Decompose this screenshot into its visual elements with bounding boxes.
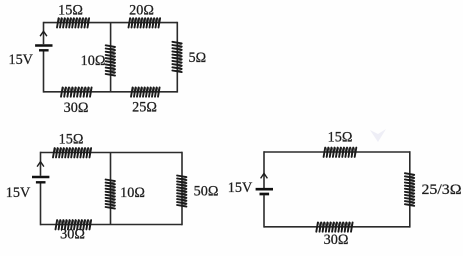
wire: circuit3 left branch upper segment bbox=[263, 151, 265, 188]
wire: circuit1 top rail bbox=[44, 22, 178, 24]
resistor 30&#937; (circuit1 bottom-left) bbox=[61, 87, 92, 96]
svg-text:25Ω: 25Ω bbox=[132, 100, 157, 116]
svg-text:15Ω: 15Ω bbox=[59, 132, 84, 148]
resistor 30&#937; (circuit2 bottom) bbox=[56, 220, 92, 229]
resistor 15&#937; (circuit2 top) bbox=[53, 148, 91, 157]
resistor 50&#937; (circuit2 right branch) bbox=[177, 176, 186, 207]
svg-text:30Ω: 30Ω bbox=[60, 227, 85, 243]
current direction arrow (circuit3) bbox=[261, 173, 268, 178]
resistor 10&#937; (circuit2 middle branch) bbox=[106, 180, 115, 209]
svg-text:15V: 15V bbox=[228, 180, 253, 196]
svg-text:25/3Ω: 25/3Ω bbox=[422, 182, 462, 198]
svg-text:15Ω: 15Ω bbox=[328, 130, 353, 146]
svg-text:5Ω: 5Ω bbox=[188, 50, 206, 66]
battery V3 15V (circuit3) bbox=[256, 188, 273, 191]
current direction arrow (circuit1) bbox=[40, 31, 47, 36]
wire: circuit1 right vertical branch bbox=[176, 22, 178, 93]
svg-text:15V: 15V bbox=[6, 185, 31, 201]
resistor 25&#937; (circuit1 bottom-right) bbox=[131, 87, 160, 96]
faint scan watermark mark bbox=[370, 129, 386, 142]
wire: circuit2 right vertical branch bbox=[181, 152, 183, 226]
wire: circuit3 left branch lower segment bbox=[263, 195, 265, 227]
svg-text:10Ω: 10Ω bbox=[120, 185, 145, 201]
svg-text:10Ω: 10Ω bbox=[81, 53, 106, 69]
svg-text:30Ω: 30Ω bbox=[324, 232, 349, 248]
battery V2 15V (circuit2) bbox=[32, 176, 49, 178]
resistor 15&#937; (circuit1 top-left) bbox=[57, 18, 89, 27]
svg-text:15Ω: 15Ω bbox=[58, 3, 83, 19]
svg-text:20Ω: 20Ω bbox=[129, 3, 154, 19]
resistor 20&#937; (circuit1 top-right) bbox=[129, 18, 161, 27]
wire: circuit2 middle vertical branch bbox=[110, 153, 112, 225]
resistor 25/3&#937; (circuit3 right branch) bbox=[405, 173, 414, 206]
resistor 10&#937; (circuit1 middle branch) bbox=[106, 45, 115, 75]
svg-text:30Ω: 30Ω bbox=[64, 100, 89, 116]
current direction arrow (circuit2) bbox=[37, 162, 44, 167]
wire: circuit2 top rail bbox=[41, 152, 183, 154]
resistor 30&#937; (circuit3 bottom) bbox=[316, 222, 352, 231]
wire: circuit3 right vertical branch bbox=[409, 151, 411, 227]
wire: circuit3 bottom rail bbox=[264, 226, 410, 228]
wire: circuit2 left branch upper segment bbox=[40, 152, 42, 176]
resistor 5&#937; (circuit1 right branch) bbox=[172, 42, 181, 72]
wire: circuit1 middle vertical branch bbox=[110, 23, 112, 92]
wire: circuit3 top rail bbox=[264, 151, 410, 153]
svg-text:50Ω: 50Ω bbox=[194, 184, 219, 200]
wire: circuit2 bottom rail bbox=[41, 224, 183, 226]
resistor 15&#937; (circuit3 top) bbox=[324, 148, 357, 157]
wire: circuit1 left branch upper segment bbox=[43, 22, 45, 44]
wire: circuit2 left branch lower segment bbox=[40, 183, 42, 225]
svg-text:15V: 15V bbox=[8, 52, 33, 68]
battery V1 15V (circuit1) bbox=[35, 44, 52, 46]
wire: circuit1 bottom rail bbox=[44, 91, 178, 93]
wire: circuit1 left branch lower segment bbox=[43, 51, 45, 92]
